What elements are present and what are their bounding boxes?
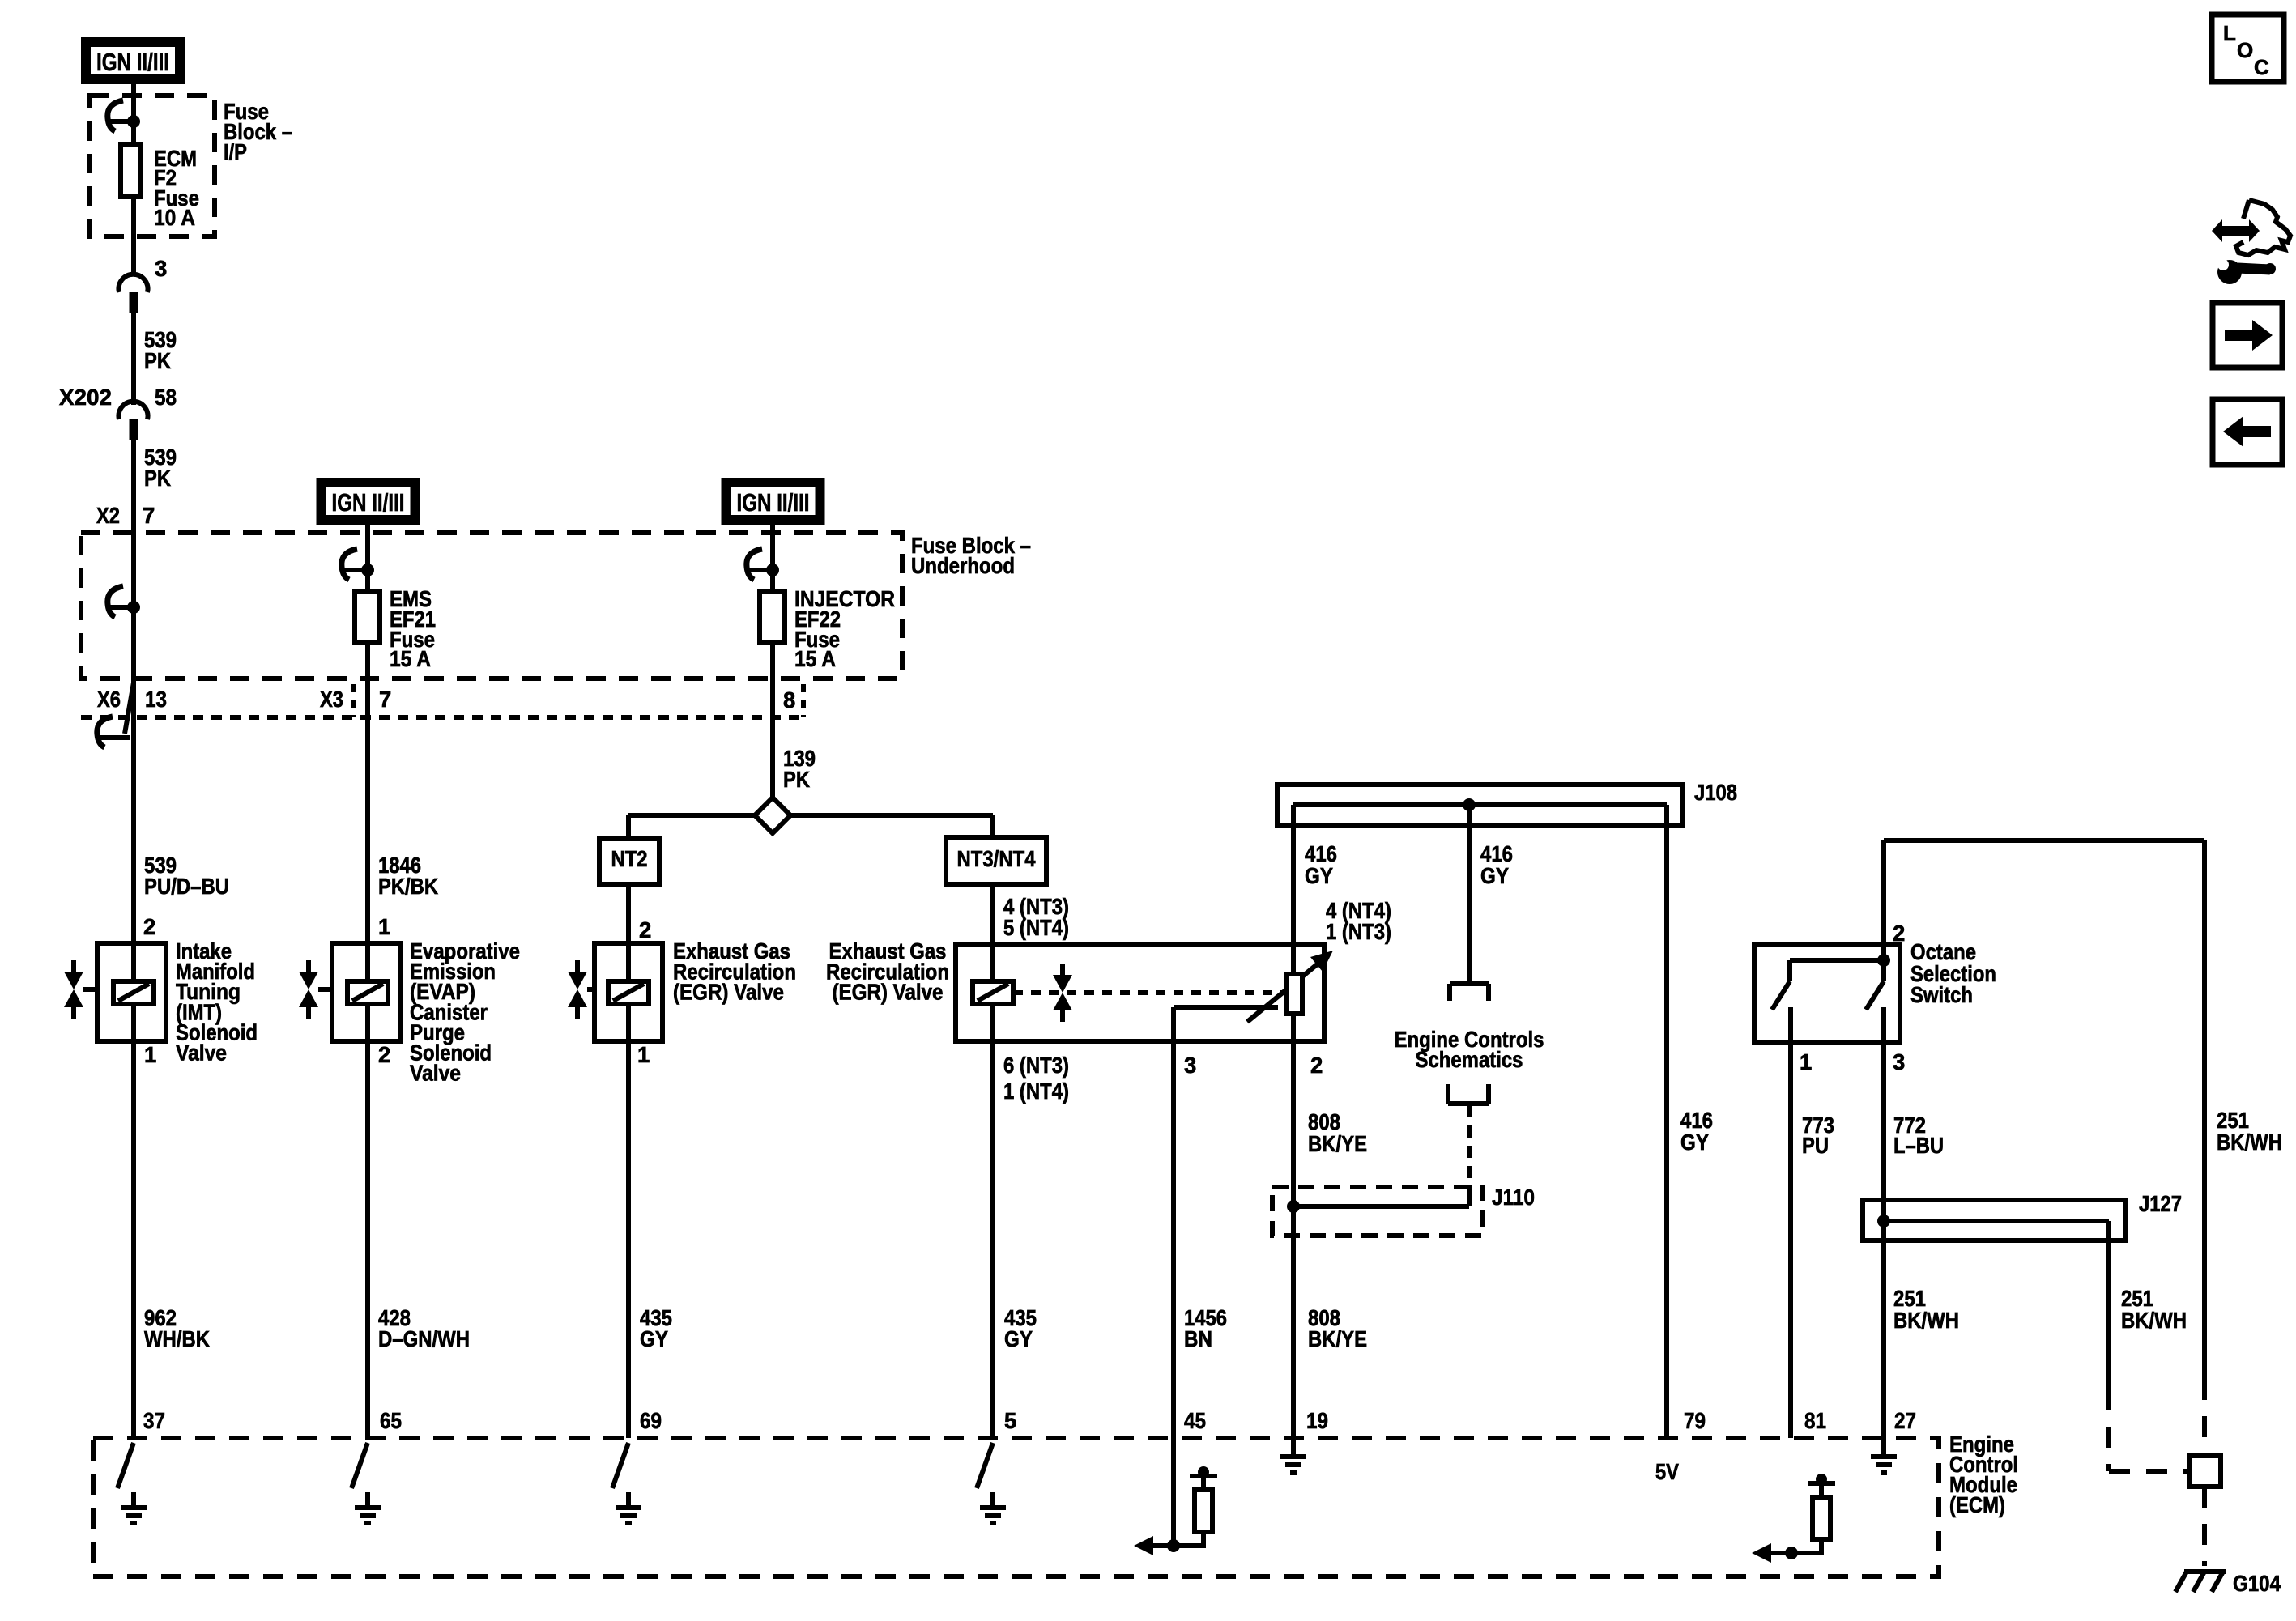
svg-text:IGN II/III: IGN II/III: [737, 488, 810, 517]
svg-text:BK/YE: BK/YE: [1308, 1326, 1367, 1351]
svg-text:GY: GY: [1305, 863, 1333, 888]
svg-text:L: L: [2223, 21, 2236, 45]
svg-text:BN: BN: [1184, 1326, 1212, 1351]
svg-text:6 (NT3): 6 (NT3): [1003, 1053, 1069, 1078]
svg-text:X6: X6: [97, 687, 121, 712]
svg-text:J127: J127: [2139, 1191, 2182, 1216]
svg-text:7: 7: [379, 687, 391, 712]
svg-text:19: 19: [1306, 1408, 1328, 1433]
svg-text:2: 2: [378, 1042, 390, 1067]
svg-text:GY: GY: [1480, 863, 1509, 888]
svg-text:5 (NT4): 5 (NT4): [1003, 915, 1069, 940]
svg-text:J108: J108: [1694, 780, 1737, 805]
svg-text:G104: G104: [2233, 1571, 2281, 1596]
svg-text:1 (NT4): 1 (NT4): [1003, 1079, 1069, 1104]
svg-text:1: 1: [1800, 1049, 1812, 1074]
svg-text:NT2: NT2: [611, 846, 648, 871]
svg-text:PK/BK: PK/BK: [378, 874, 438, 899]
svg-text:GY: GY: [1680, 1130, 1709, 1155]
svg-text:7: 7: [143, 503, 155, 528]
svg-text:X202: X202: [59, 385, 112, 410]
svg-text:15 A: 15 A: [390, 646, 431, 671]
svg-text:GY: GY: [1004, 1326, 1033, 1351]
svg-text:PU/D–BU: PU/D–BU: [144, 874, 229, 899]
svg-text:45: 45: [1184, 1408, 1206, 1433]
svg-text:3: 3: [155, 256, 167, 281]
svg-text:X3: X3: [320, 687, 343, 712]
svg-text:IGN II/III: IGN II/III: [332, 488, 405, 517]
svg-text:J110: J110: [1492, 1185, 1535, 1210]
svg-text:(EGR) Valve: (EGR) Valve: [673, 980, 784, 1005]
svg-text:1: 1: [378, 914, 390, 939]
svg-text:BK/WH: BK/WH: [2217, 1130, 2282, 1155]
svg-text:Underhood: Underhood: [911, 553, 1015, 578]
svg-text:3: 3: [1893, 1049, 1905, 1074]
svg-text:GY: GY: [640, 1326, 668, 1351]
svg-text:2: 2: [143, 914, 155, 939]
svg-text:NT3/NT4: NT3/NT4: [957, 846, 1037, 871]
svg-text:3: 3: [1184, 1053, 1196, 1078]
svg-text:2: 2: [1893, 921, 1905, 946]
svg-text:1: 1: [637, 1042, 650, 1067]
svg-text:8: 8: [783, 687, 795, 713]
svg-text:81: 81: [1804, 1408, 1826, 1433]
svg-text:Valve: Valve: [176, 1040, 227, 1066]
svg-text:PU: PU: [1802, 1133, 1829, 1158]
svg-text:O: O: [2237, 38, 2253, 62]
svg-text:IGN II/III: IGN II/III: [96, 48, 169, 76]
svg-text:(ECM): (ECM): [1949, 1492, 2005, 1517]
svg-text:15 A: 15 A: [794, 646, 836, 671]
svg-text:5V: 5V: [1655, 1459, 1680, 1484]
svg-text:37: 37: [143, 1408, 165, 1433]
svg-text:D–GN/WH: D–GN/WH: [378, 1326, 470, 1351]
svg-text:Schematics: Schematics: [1416, 1047, 1523, 1072]
svg-text:Switch: Switch: [1910, 982, 1973, 1007]
svg-text:C: C: [2254, 55, 2269, 79]
svg-text:L–BU: L–BU: [1893, 1133, 1944, 1158]
svg-text:1 (NT3): 1 (NT3): [1326, 919, 1391, 944]
svg-text:13: 13: [145, 687, 167, 712]
svg-text:X2: X2: [96, 503, 120, 528]
svg-text:10 A: 10 A: [154, 205, 195, 230]
svg-text:79: 79: [1684, 1408, 1706, 1433]
svg-text:BK/WH: BK/WH: [2121, 1308, 2187, 1333]
svg-text:PK: PK: [783, 767, 810, 792]
svg-text:65: 65: [380, 1408, 402, 1433]
svg-text:I/P: I/P: [224, 139, 247, 164]
svg-text:PK: PK: [144, 348, 171, 373]
svg-text:Valve: Valve: [410, 1061, 461, 1086]
svg-text:2: 2: [639, 917, 651, 942]
svg-text:69: 69: [640, 1408, 662, 1433]
svg-text:58: 58: [155, 385, 177, 410]
svg-text:BK/WH: BK/WH: [1893, 1308, 1959, 1333]
svg-text:5: 5: [1004, 1408, 1016, 1433]
svg-text:PK: PK: [144, 466, 171, 491]
svg-text:WH/BK: WH/BK: [144, 1326, 210, 1351]
svg-text:1: 1: [144, 1042, 156, 1067]
svg-text:27: 27: [1894, 1408, 1916, 1433]
svg-text:(EGR) Valve: (EGR) Valve: [833, 980, 944, 1005]
svg-text:BK/YE: BK/YE: [1308, 1131, 1367, 1156]
svg-text:2: 2: [1310, 1053, 1323, 1078]
